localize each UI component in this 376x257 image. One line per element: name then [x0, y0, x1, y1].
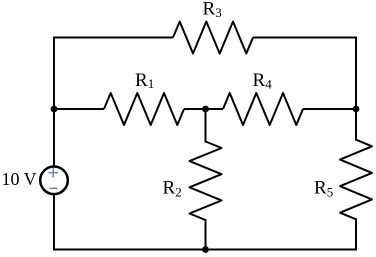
wire: right vertical lower (R5 to bottom corner)	[355, 218, 357, 250]
resistor R1	[104, 93, 184, 125]
wire: R2 branch lower	[205, 219, 207, 251]
wire: middle row centre segment (R1 to R4 across node B)	[184, 108, 223, 110]
svg-text:R4: R4	[253, 70, 273, 92]
junction node C (right wire / middle wire)	[353, 106, 360, 113]
wire: bottom side	[54, 249, 356, 251]
junction node B (middle wire / R2 branch)	[202, 106, 209, 113]
voltage source V1 10 V	[40, 167, 68, 195]
wire: left vertical (top corner down to source +)	[53, 37, 55, 168]
svg-text:R1: R1	[135, 70, 154, 91]
resistor R2	[190, 142, 222, 221]
svg-text:10 V: 10 V	[2, 169, 37, 189]
wire: middle row right segment	[303, 108, 356, 110]
junction node A (left wire / middle wire)	[51, 106, 58, 113]
resistor R4	[223, 93, 303, 125]
wire: top side (node between source + and R3)	[54, 37, 356, 39]
svg-text:R3: R3	[203, 0, 222, 20]
wire: left vertical (source - down to bottom corner)	[53, 194, 55, 251]
svg-text:R5: R5	[314, 177, 333, 199]
resistor R5	[340, 140, 372, 220]
wire: middle row left segment	[54, 108, 104, 110]
resistor R3	[173, 22, 253, 54]
wire: R2 branch upper	[205, 109, 207, 143]
svg-text:R2: R2	[163, 177, 182, 199]
wire: right vertical upper (top corner to R5)	[355, 37, 357, 141]
junction node D (R2 branch / bottom wire)	[202, 246, 209, 253]
